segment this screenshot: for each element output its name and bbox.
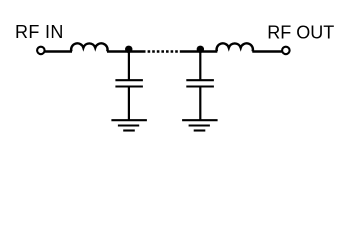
node B junction dot (197, 46, 204, 53)
wire from node B to inductor L2 (200, 50, 217, 52)
capacitor C2 bottom plate (186, 85, 214, 87)
wire from inductor L1 to node A (107, 50, 129, 52)
capacitor C1 top plate (115, 79, 142, 81)
capacitor C1 top lead (128, 52, 130, 80)
wire solid stub right of node A (129, 50, 146, 52)
node A junction dot (125, 46, 132, 53)
port terminal circle RF IN (37, 47, 45, 55)
capacitor C2 top lead (199, 52, 201, 80)
ground 2 bar 1 (182, 119, 218, 121)
wire from RF IN terminal to inductor L1 (45, 50, 73, 52)
capacitor C1 bottom lead (128, 87, 130, 120)
ground 1 bar 1 (111, 119, 146, 121)
dashed wire continuation (148, 50, 179, 52)
ground 1 bar 2 (118, 124, 139, 126)
ground 2 bar 3 (194, 129, 206, 131)
capacitor C2 bottom lead (199, 87, 201, 120)
ground 2 bar 2 (189, 124, 210, 126)
inductor L1 (71, 43, 107, 51)
inductor L2 (217, 43, 253, 51)
port terminal circle RF OUT (282, 47, 290, 55)
wire solid stub left of node B (180, 50, 201, 52)
svg-text:RF OUT: RF OUT (267, 23, 334, 43)
capacitor C2 top plate (186, 79, 214, 81)
capacitor C1 bottom plate (115, 85, 142, 87)
wire from inductor L2 to RF OUT terminal (252, 50, 282, 52)
svg-text:RF IN: RF IN (15, 22, 64, 42)
ground 1 bar 3 (123, 129, 135, 131)
